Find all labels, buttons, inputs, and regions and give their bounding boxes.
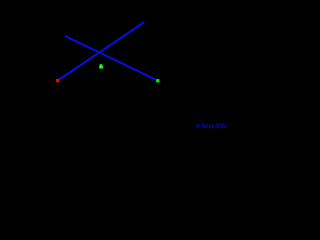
node C: green blob handle below crossing xyxy=(99,66,103,69)
wire: blue line segment from upper-left down to green point xyxy=(66,36,155,79)
node B: green square endpoint xyxy=(156,79,159,82)
node A: red square endpoint xyxy=(56,79,59,82)
svg-text:X 5my /ZW: X 5my /ZW xyxy=(196,124,225,130)
wire: blue line segment from red point up-right xyxy=(59,23,144,81)
